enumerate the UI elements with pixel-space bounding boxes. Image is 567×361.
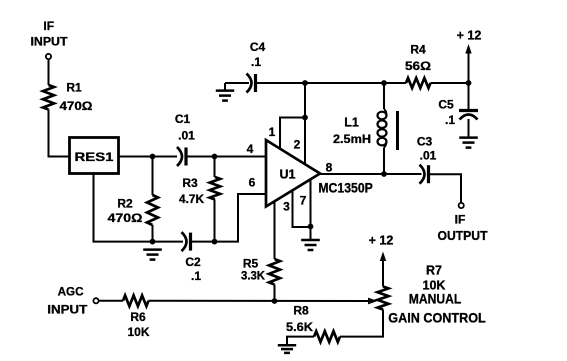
svg-text:R1: R1 — [66, 81, 82, 95]
svg-text:C5: C5 — [438, 97, 454, 111]
wire pin6 — [191, 175, 266, 241]
capacitor C1 — [175, 112, 195, 166]
terminal AGC INPUT — [47, 284, 98, 316]
inductor L1 — [333, 109, 387, 148]
ground — [278, 345, 296, 353]
terminal IF INPUT — [31, 19, 69, 59]
svg-text:3: 3 — [283, 199, 290, 213]
svg-text:U1: U1 — [280, 167, 296, 181]
ground — [216, 91, 234, 101]
svg-text:C4: C4 — [250, 40, 266, 54]
svg-text:R7: R7 — [426, 264, 442, 278]
wire — [119, 156, 177, 158]
svg-text:MANUAL: MANUAL — [409, 292, 462, 307]
svg-text:RES1: RES1 — [75, 150, 114, 164]
svg-text:AGC: AGC — [58, 284, 84, 298]
ground — [143, 250, 162, 260]
svg-text:.01: .01 — [420, 148, 437, 162]
svg-text:4: 4 — [247, 142, 254, 156]
svg-text:IF: IF — [455, 212, 466, 226]
node junction — [381, 80, 387, 86]
node junction — [302, 115, 308, 121]
wire — [99, 300, 123, 302]
svg-text:.1: .1 — [191, 269, 201, 283]
pin 2 — [294, 83, 305, 164]
wire — [340, 310, 383, 337]
pin 8 label — [326, 160, 333, 174]
pin 1 — [269, 118, 305, 149]
svg-text:R2: R2 — [117, 196, 133, 210]
pin 7 — [293, 179, 311, 227]
block RES1 — [70, 138, 119, 174]
svg-text:10K: 10K — [423, 279, 446, 293]
node junction — [308, 224, 314, 230]
svg-text:2.5mH: 2.5mH — [333, 132, 371, 146]
resistor R4 — [405, 42, 431, 88]
resistor R3 — [179, 176, 220, 206]
svg-text:C2: C2 — [185, 255, 201, 269]
power +12 — [369, 234, 394, 287]
svg-text:IF: IF — [43, 19, 54, 33]
capacitor C5 — [438, 97, 478, 127]
svg-text:6: 6 — [249, 175, 256, 189]
svg-text:+ 12: + 12 — [457, 29, 482, 43]
svg-text:INPUT: INPUT — [31, 35, 69, 49]
capacitor C4 — [247, 40, 266, 93]
resistor R5 — [241, 256, 280, 284]
power +12 — [457, 29, 482, 83]
svg-text:.1: .1 — [251, 55, 261, 69]
svg-text:7: 7 — [300, 193, 307, 207]
svg-text:L1: L1 — [344, 116, 359, 130]
wire — [431, 82, 469, 84]
node junction — [212, 239, 218, 245]
wire output — [320, 173, 422, 175]
wire — [287, 337, 314, 345]
svg-text:5.6K: 5.6K — [286, 320, 313, 334]
resistor R7 — [378, 264, 486, 326]
wire AGC line — [149, 300, 369, 302]
svg-text:56Ω: 56Ω — [405, 59, 431, 73]
svg-text:INPUT: INPUT — [47, 303, 88, 317]
node junction — [150, 154, 156, 160]
resistor R1 — [43, 81, 93, 114]
terminal IF OUTPUT — [438, 203, 488, 243]
svg-text:GAIN CONTROL: GAIN CONTROL — [388, 311, 486, 326]
resistor R6 — [123, 295, 150, 339]
resistor R2 — [108, 195, 159, 225]
capacitor C2 — [182, 232, 202, 283]
svg-text:4.7K: 4.7K — [179, 192, 204, 206]
svg-text:R8: R8 — [293, 303, 309, 317]
wire — [152, 157, 154, 196]
svg-text:.1: .1 — [445, 113, 455, 127]
svg-text:470Ω: 470Ω — [108, 211, 143, 225]
wire — [468, 119, 470, 137]
svg-text:R6: R6 — [130, 310, 146, 324]
wire — [153, 241, 184, 243]
label MC1350P — [318, 181, 373, 196]
ground — [459, 138, 478, 148]
pin 3 — [275, 199, 291, 259]
node junction — [212, 154, 218, 160]
wire — [214, 200, 216, 242]
wire RES1 bottom — [94, 175, 153, 242]
svg-text:R4: R4 — [410, 42, 426, 56]
svg-text:1: 1 — [269, 125, 276, 139]
node junction — [150, 239, 156, 245]
svg-text:C3: C3 — [417, 134, 433, 148]
wire — [49, 110, 69, 157]
svg-text:470Ω: 470Ω — [60, 99, 93, 113]
wire — [225, 83, 249, 91]
svg-text:MC1350P: MC1350P — [318, 181, 373, 196]
node junction — [466, 80, 472, 86]
svg-text:10K: 10K — [127, 325, 149, 339]
wire top rail — [256, 82, 406, 84]
svg-text:C1: C1 — [175, 112, 191, 126]
core bar — [396, 111, 399, 150]
svg-text:OUTPUT: OUTPUT — [438, 229, 488, 243]
wire — [429, 174, 461, 202]
svg-text:+ 12: + 12 — [369, 234, 394, 248]
svg-text:8: 8 — [326, 160, 333, 174]
node junction — [302, 80, 308, 86]
wire — [152, 225, 154, 242]
svg-text:R3: R3 — [182, 176, 198, 190]
wire — [274, 285, 276, 302]
svg-text:2: 2 — [294, 137, 301, 151]
capacitor C3 — [417, 134, 437, 183]
op-amp U1 — [266, 140, 320, 207]
node junction — [272, 298, 278, 304]
svg-text:.01: .01 — [178, 128, 195, 142]
wire — [214, 157, 216, 178]
node junction — [381, 171, 387, 177]
ground — [301, 240, 320, 250]
resistor R8 — [286, 303, 340, 342]
wire — [48, 59, 50, 85]
wire — [383, 83, 385, 109]
wire — [310, 227, 312, 240]
wire — [383, 148, 385, 175]
wire pin4 — [187, 142, 267, 157]
wire — [468, 83, 470, 109]
wiper arrow — [368, 298, 378, 305]
svg-text:3.3K: 3.3K — [241, 269, 265, 283]
